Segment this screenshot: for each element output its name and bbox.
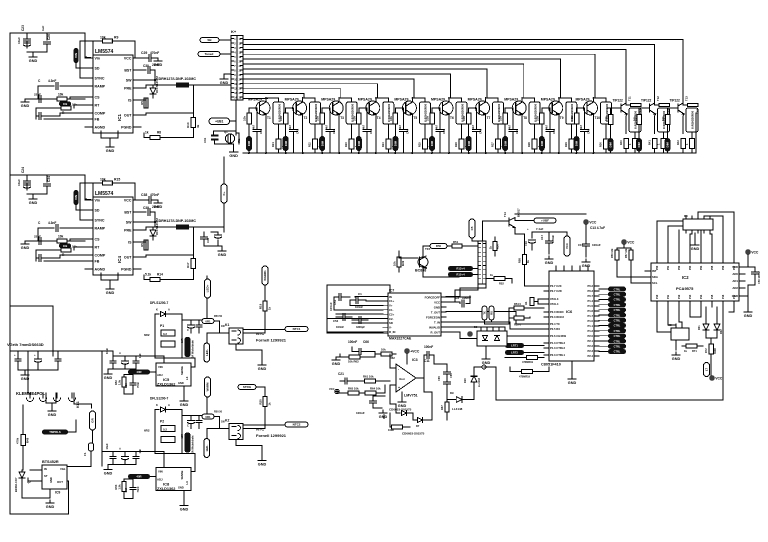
svg-text:ADJ: ADJ xyxy=(157,373,163,377)
svg-text:10k: 10k xyxy=(63,102,68,106)
svg-text:C15: C15 xyxy=(578,243,584,247)
svg-text:PCA9575: PCA9575 xyxy=(676,286,694,291)
net label pill ADJ IC5 xyxy=(128,370,150,375)
net label pill DIM T6 xyxy=(429,136,435,151)
svg-text:10k: 10k xyxy=(426,116,430,121)
connector K3 bottom xyxy=(671,328,689,340)
svg-text:470nF: 470nF xyxy=(150,51,159,55)
svg-text:R15: R15 xyxy=(114,178,120,182)
wire ground IC4 output xyxy=(204,245,222,247)
svg-text:10k: 10k xyxy=(100,178,106,182)
svg-text:MPSA29: MPSA29 xyxy=(431,98,445,102)
resistor network label U:R1H220R00 T10 xyxy=(601,102,612,124)
resistor R20 1k xyxy=(264,395,266,397)
svg-text:Vin: Vin xyxy=(95,199,101,203)
resistor base 10k T4 xyxy=(358,108,360,113)
svg-text:R53: R53 xyxy=(114,484,118,489)
svg-text:100nF: 100nF xyxy=(551,235,555,243)
capacitor C15 100nF xyxy=(583,243,590,245)
svg-text:SYNC: SYNC xyxy=(95,77,105,81)
power VCC input divider xyxy=(335,389,339,393)
svg-text:CTRL: CTRL xyxy=(614,351,621,354)
svg-text:P1.2: P1.2 xyxy=(587,329,593,333)
svg-text:AD2: AD2 xyxy=(732,286,738,290)
ground CS xyxy=(25,98,30,100)
ground R63 xyxy=(336,356,340,358)
svg-text:10k: 10k xyxy=(58,93,64,97)
svg-text:3300pF: 3300pF xyxy=(356,325,365,329)
svg-text:R50 50: R50 50 xyxy=(214,411,223,414)
svg-text:100nF: 100nF xyxy=(592,243,601,247)
svg-text:5.1k: 5.1k xyxy=(145,273,151,277)
svg-text:4.3nF: 4.3nF xyxy=(48,79,56,83)
svg-text:R_IN: R_IN xyxy=(389,330,395,334)
svg-text:GND: GND xyxy=(29,59,38,63)
svg-text:T12: T12 xyxy=(656,96,660,101)
svg-text:DIM: DIM xyxy=(320,140,324,146)
net label pill TXD vertical xyxy=(482,306,487,320)
svg-text:C1: C1 xyxy=(358,292,362,296)
svg-text:GND: GND xyxy=(180,403,189,407)
svg-text:RAMP: RAMP xyxy=(95,227,106,231)
transistor T8 MPSA29 stage xyxy=(505,107,512,109)
resistor R51 xyxy=(452,244,462,248)
wire BC858 collector xyxy=(423,246,430,257)
svg-text:P02: P02 xyxy=(678,265,681,270)
resistor R24 emitter T4 xyxy=(386,139,391,149)
svg-text:22nF: 22nF xyxy=(152,205,159,209)
svg-text:Vout: Vout xyxy=(399,377,405,381)
svg-text:K3: K3 xyxy=(668,323,672,327)
ground K2 xyxy=(261,458,263,461)
net label pill LED2+ vertical xyxy=(205,279,211,298)
svg-text:MPSA29: MPSA29 xyxy=(285,98,299,102)
svg-text:GND: GND xyxy=(49,477,53,483)
svg-text:10uF: 10uF xyxy=(105,443,109,449)
svg-text:GND: GND xyxy=(229,154,238,158)
svg-text:LED-: LED- xyxy=(205,349,209,356)
svg-text:C41: C41 xyxy=(296,128,300,134)
capacitor ramp 4.3nF xyxy=(60,85,85,87)
svg-text:P04: P04 xyxy=(700,265,703,270)
svg-text:GND: GND xyxy=(744,314,753,318)
svg-text:SW: SW xyxy=(126,221,132,225)
svg-text:C8051F410: C8051F410 xyxy=(541,363,561,367)
svg-text:P16: P16 xyxy=(722,294,725,299)
svg-text:6A Wickeldraht: 6A Wickeldraht xyxy=(192,435,195,453)
net label pill LRT2 xyxy=(505,350,524,355)
inductor L CDRH127/LDNP-102MC xyxy=(155,84,176,86)
diode D20 vertical xyxy=(471,376,477,382)
svg-text:INVALID: INVALID xyxy=(429,325,440,329)
resistor R45 T12 xyxy=(661,139,666,149)
resistor sense dark R51 xyxy=(185,337,191,357)
svg-text:470nF: 470nF xyxy=(150,193,159,197)
IC9 BTS452R high-side switch body xyxy=(42,465,67,489)
svg-text:AGND: AGND xyxy=(95,126,106,130)
svg-text:4k7: 4k7 xyxy=(472,124,475,129)
svg-text:6R2: 6R2 xyxy=(144,333,150,337)
capacitor input bank IC5 xyxy=(112,356,114,360)
optocoupler IC10 xyxy=(477,331,507,346)
wire SW node xyxy=(141,221,155,223)
svg-text:SW: SW xyxy=(126,79,132,83)
svg-text:R23: R23 xyxy=(344,142,348,147)
svg-text:P1.0: P1.0 xyxy=(587,319,593,323)
svg-text:10uF: 10uF xyxy=(17,37,21,44)
svg-text:P1.6: P1.6 xyxy=(587,309,593,313)
transistor T5 MPSA29 stage xyxy=(395,107,402,109)
svg-text:IC5: IC5 xyxy=(163,377,170,382)
svg-text:MPSA29: MPSA29 xyxy=(504,98,518,102)
diode D catch DFLS1200-7 xyxy=(152,85,154,88)
svg-text:10k: 10k xyxy=(499,116,503,121)
svg-text:CTRL: CTRL xyxy=(614,309,621,312)
svg-text:C16: C16 xyxy=(524,241,528,246)
svg-text:D22: D22 xyxy=(720,329,723,334)
svg-text:IC9: IC9 xyxy=(55,491,60,495)
svg-text:C2+: C2+ xyxy=(389,312,395,316)
svg-text:TIP122: TIP122 xyxy=(641,99,652,103)
svg-text:C39: C39 xyxy=(143,206,149,210)
resistor base 10k T8 xyxy=(504,108,506,113)
svg-text:DIM: DIM xyxy=(609,142,613,148)
capacitor input bank terminal xyxy=(17,351,19,358)
wire supply rail LED drivers xyxy=(101,351,103,466)
capacitor C41 output IC4 xyxy=(211,231,218,233)
svg-text:DIM: DIM xyxy=(575,140,579,146)
svg-text:R49: R49 xyxy=(401,260,405,266)
svg-text:R42: R42 xyxy=(676,140,680,145)
ground op-amp xyxy=(401,392,403,399)
resistor shunt pill IC8 xyxy=(202,414,214,419)
capacitor C29 470nF xyxy=(141,57,148,59)
svg-text:C65: C65 xyxy=(449,373,453,378)
net label pill LED- K2 xyxy=(204,439,210,458)
svg-text:R48: R48 xyxy=(26,437,30,443)
svg-text:10k: 10k xyxy=(63,244,68,248)
resistor 10k CS xyxy=(70,238,85,240)
svg-text:CTRL: CTRL xyxy=(614,320,621,323)
net label pill dark F xyxy=(59,102,71,107)
ground optocoupler xyxy=(485,356,487,359)
svg-text:4k: 4k xyxy=(196,124,200,128)
resistor R48 470k xyxy=(22,405,24,434)
svg-text:DIM: DIM xyxy=(467,140,471,146)
capacitor 22nF CS xyxy=(38,238,40,245)
resistor R19 1k xyxy=(264,299,266,301)
svg-text:LX: LX xyxy=(185,481,189,485)
svg-text:R56 10k: R56 10k xyxy=(611,248,614,258)
svg-text:P03: P03 xyxy=(689,265,692,270)
capacitor C56 collector T13 xyxy=(688,103,699,106)
svg-text:R61 10k: R61 10k xyxy=(363,375,374,379)
svg-text:P2.3 CTRL1: P2.3 CTRL1 xyxy=(550,353,565,357)
wire T14 base from header xyxy=(482,220,509,222)
svg-text:0.2: 0.2 xyxy=(163,428,167,432)
svg-text:100nF: 100nF xyxy=(424,345,433,349)
svg-text:R24: R24 xyxy=(381,142,385,147)
svg-text:+: + xyxy=(34,353,36,357)
capacitor C50 100nF xyxy=(748,266,755,268)
svg-text:LX: LX xyxy=(185,376,189,380)
svg-text:R50: R50 xyxy=(496,244,500,249)
svg-text:VCC: VCC xyxy=(627,241,635,245)
resistor network label U:R1H220R00 T9 xyxy=(566,102,577,124)
wire loop around P1 xyxy=(155,314,182,358)
transistor T15 BC858 xyxy=(418,257,428,267)
capacitor C17 cluster xyxy=(548,232,550,240)
IC6 C8051F410 microcontroller body xyxy=(549,271,594,361)
wire SW node xyxy=(141,79,155,81)
resistor R72 xyxy=(709,344,714,354)
transistor T12 TIP122 stage xyxy=(637,107,650,109)
resistor R30 emitter T10 xyxy=(604,139,609,149)
net label pill DIM T12 xyxy=(636,138,642,152)
resistor R55 0R xyxy=(514,316,524,320)
resistor R67 xyxy=(446,394,448,401)
svg-text:SD: SD xyxy=(95,67,100,71)
svg-text:4k7: 4k7 xyxy=(253,124,256,129)
emitter wire T5 xyxy=(411,115,413,153)
svg-text:Fornell 1299921: Fornell 1299921 xyxy=(256,433,287,438)
svg-text:RX: RX xyxy=(490,311,494,315)
wire long bottom loop xyxy=(484,307,723,400)
net label pill Tuned input xyxy=(198,52,220,57)
svg-text:GND: GND xyxy=(104,472,113,476)
svg-text:4k7: 4k7 xyxy=(289,124,292,129)
svg-text:R58: R58 xyxy=(518,258,522,263)
svg-text:GND: GND xyxy=(106,149,115,153)
resistor R57 10k xyxy=(630,248,632,250)
svg-text:R40: R40 xyxy=(619,140,623,145)
svg-text:VCC: VCC xyxy=(715,377,723,381)
resistor network label U:R1H220R00 T7 xyxy=(493,102,504,124)
emitter wire T2 xyxy=(302,115,304,153)
svg-text:DIM: DIM xyxy=(357,140,361,146)
svg-text:C2-: C2- xyxy=(389,317,394,321)
wire IC4 inductor output xyxy=(196,227,224,232)
svg-text:LL4148: LL4148 xyxy=(452,407,463,411)
svg-text:SYNC: SYNC xyxy=(95,219,105,223)
svg-text:PGND: PGND xyxy=(121,126,132,130)
svg-text:BC858: BC858 xyxy=(415,269,426,273)
svg-text:R25: R25 xyxy=(417,142,421,147)
wire IC7 to IC6 signal lines xyxy=(446,312,544,325)
capacitor C26 1uF xyxy=(46,33,48,40)
svg-text:1k: 1k xyxy=(684,349,687,353)
svg-text:IN: IN xyxy=(389,295,392,299)
svg-text:51k: 51k xyxy=(72,103,77,107)
svg-text:R51: R51 xyxy=(453,240,459,244)
svg-text:390R: 390R xyxy=(714,348,717,354)
svg-text:XTAL4: XTAL4 xyxy=(550,302,559,306)
svg-text:MPSA29: MPSA29 xyxy=(358,98,372,102)
svg-text:K2: K2 xyxy=(225,419,229,423)
net label pill WARM2 vertical xyxy=(205,377,211,397)
capacitor input bank IC8 xyxy=(112,452,114,456)
svg-text:R50: R50 xyxy=(436,244,442,248)
capacitor cluster IC8 output xyxy=(182,415,210,417)
svg-text:P06: P06 xyxy=(722,265,725,270)
wire bottom-left enclosure xyxy=(10,513,69,515)
svg-text:C5: C5 xyxy=(470,226,474,230)
svg-text:R22: R22 xyxy=(308,142,312,147)
svg-text:VCC: VCC xyxy=(329,387,335,391)
svg-text:T5: T5 xyxy=(413,116,417,120)
svg-text:R13: R13 xyxy=(186,122,190,128)
svg-text:4.3nF: 4.3nF xyxy=(48,221,56,225)
ground IC9 xyxy=(49,500,51,503)
svg-text:GND: GND xyxy=(48,413,57,417)
svg-text:IC2: IC2 xyxy=(682,275,689,280)
wire output node to diodes xyxy=(434,363,447,365)
svg-text:NTC2: NTC2 xyxy=(293,423,301,427)
svg-text:R67: R67 xyxy=(440,405,444,410)
svg-text:OUT: OUT xyxy=(124,114,132,118)
IC7 MAX3227CAE body xyxy=(388,293,441,336)
capacitor C49 base T10 xyxy=(584,108,586,129)
svg-text:C: C xyxy=(118,448,122,450)
net label pill DIM T1 xyxy=(246,136,252,151)
diode D2 zener xyxy=(30,469,42,471)
svg-text:1k: 1k xyxy=(145,131,149,135)
svg-text:470NR19: 470NR19 xyxy=(522,360,534,364)
ground IC4 output xyxy=(221,248,223,251)
capacitor C48 base T9 xyxy=(549,108,551,129)
svg-text:P0.0 ID400: P0.0 ID400 xyxy=(550,310,564,314)
svg-text:P1.3 CTRL3: P1.3 CTRL3 xyxy=(550,341,565,345)
svg-text:DIM: DIM xyxy=(284,140,288,146)
ground AGND PGND xyxy=(100,273,102,280)
svg-text:DIM: DIM xyxy=(247,140,251,146)
net label pill R15+4 xyxy=(448,272,473,277)
svg-text:GND: GND xyxy=(178,486,184,490)
op-amp IC3 LMV751 triangle xyxy=(396,364,416,392)
svg-text:LED-: LED- xyxy=(205,445,209,452)
svg-text:C31: C31 xyxy=(203,137,207,143)
capacitor C34 1uF xyxy=(46,175,48,182)
svg-text:10k: 10k xyxy=(100,36,106,40)
svg-text:PGND: PGND xyxy=(121,268,132,272)
svg-text:22nF: 22nF xyxy=(34,235,41,239)
svg-text:D21: D21 xyxy=(698,325,701,330)
svg-text:7.4uF: 7.4uF xyxy=(536,227,544,231)
svg-text:XTAL3: XTAL3 xyxy=(550,297,559,301)
svg-text:10k: 10k xyxy=(535,116,539,121)
svg-text:C1-: C1- xyxy=(389,308,394,312)
ground K1 xyxy=(261,362,263,365)
resistor R41 emitter T12 xyxy=(655,114,656,134)
svg-text:CTRL: CTRL xyxy=(614,294,621,297)
net label pill C5 vertical xyxy=(469,219,475,238)
svg-text:C48: C48 xyxy=(552,128,556,134)
svg-text:R29: R29 xyxy=(564,142,568,147)
svg-text:1.5k: 1.5k xyxy=(118,379,122,385)
svg-text:MPSA29: MPSA29 xyxy=(576,98,590,102)
resistor R29 emitter T9 xyxy=(569,139,574,149)
svg-text:VCC: VCC xyxy=(124,199,132,203)
svg-text:C11: C11 xyxy=(424,359,430,363)
transistor T1 MPSA29 stage xyxy=(249,107,256,109)
resistor R28 emitter T8 xyxy=(532,139,537,149)
svg-text:R72: R72 xyxy=(705,348,708,353)
svg-text:LL4148: LL4148 xyxy=(477,378,481,387)
resistor R44 T11 xyxy=(633,139,638,149)
svg-text:VCC: VCC xyxy=(124,57,132,61)
svg-text:GND: GND xyxy=(434,305,440,309)
ground CS xyxy=(25,240,30,242)
svg-text:R57 10k: R57 10k xyxy=(625,248,628,258)
svg-text:IC1: IC1 xyxy=(117,114,122,122)
svg-text:SD: SD xyxy=(95,209,100,213)
svg-text:1k: 1k xyxy=(268,306,272,310)
svg-text:70nF: 70nF xyxy=(136,382,140,388)
svg-text:P0.6 CH4SW: P0.6 CH4SW xyxy=(550,334,566,338)
svg-text:P2.4: P2.4 xyxy=(587,354,593,358)
svg-text:10R: 10R xyxy=(181,434,184,439)
net label pill WARM1 vertical xyxy=(262,266,268,285)
IC IC5 ZXLD1362 body xyxy=(156,363,191,386)
LED D22 xyxy=(716,307,718,324)
svg-text:DIM: DIM xyxy=(430,140,434,146)
resistor network label U:R1H220R00 T6 xyxy=(456,102,467,124)
resistor R60 470NR19 xyxy=(505,357,526,359)
net label pill BUZZER vertical xyxy=(704,363,710,377)
wire IC7 left connections xyxy=(355,296,383,298)
transistor T10 MPSA29 stage xyxy=(577,107,584,109)
svg-text:VGrth 7mmDS663D: VGrth 7mmDS663D xyxy=(7,342,44,347)
svg-text:C40: C40 xyxy=(206,237,210,243)
svg-text:ZXLD1362: ZXLD1362 xyxy=(157,487,175,491)
svg-text:R17: R17 xyxy=(186,262,190,268)
svg-text:P10: P10 xyxy=(656,294,659,299)
connector KL1 4-pole terminal xyxy=(27,398,34,402)
svg-text:C: C xyxy=(187,424,189,428)
resistor R26 emitter T6 xyxy=(459,139,464,149)
svg-text:BST: BST xyxy=(124,211,132,215)
emitter wire T7 xyxy=(485,115,487,153)
capacitor C30 22nF xyxy=(141,69,146,71)
svg-text:T7: T7 xyxy=(487,116,491,120)
svg-text:BC817: BC817 xyxy=(517,208,521,217)
svg-text:R15+4: R15+4 xyxy=(456,273,465,277)
net label pill DIM T3 xyxy=(319,136,325,151)
svg-text:CTRL: CTRL xyxy=(614,340,621,343)
svg-text:C21: C21 xyxy=(338,372,344,376)
svg-text:P1: P1 xyxy=(160,324,164,328)
svg-text:CDRH127/LDNP-102MC: CDRH127/LDNP-102MC xyxy=(156,219,196,223)
svg-text:AGND: AGND xyxy=(95,268,106,272)
svg-text:4k7: 4k7 xyxy=(326,124,329,129)
svg-text:C30: C30 xyxy=(143,64,149,68)
resistor network label U:R1H220R00 T1 xyxy=(273,102,284,124)
svg-text:R8: R8 xyxy=(157,131,161,135)
svg-text:1k: 1k xyxy=(489,246,493,249)
resistor R63 10k xyxy=(340,356,349,358)
svg-text:VIN: VIN xyxy=(74,53,78,58)
svg-text:+: + xyxy=(527,227,529,231)
svg-text:LMV751: LMV751 xyxy=(404,394,418,398)
svg-text:TMPRLS: TMPRLS xyxy=(49,430,61,434)
svg-text:10k: 10k xyxy=(570,116,574,121)
svg-text:GND: GND xyxy=(178,381,184,385)
svg-text:P2.0: P2.0 xyxy=(587,334,593,338)
svg-text:SDA: SDA xyxy=(652,275,658,279)
svg-text:R55 0: R55 0 xyxy=(514,323,521,327)
emitter wire T8 xyxy=(521,115,523,153)
net label pill R13+4 xyxy=(448,266,473,271)
